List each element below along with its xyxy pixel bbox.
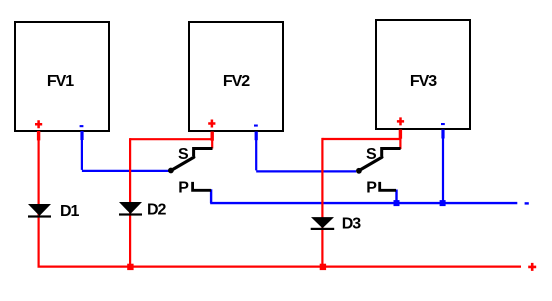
svg-text:D2: D2 (147, 201, 167, 218)
wire diode D2 branch down to bottom bus (129, 138, 131, 267)
switch SW2 arm (359, 157, 382, 170)
junction node SW2 P on negative bus (394, 200, 400, 206)
wire branch FV3 positive to diode D3 (322, 138, 400, 140)
wire bottom positive bus (38, 266, 522, 268)
wire FV3 negative down to negative bus (442, 130, 444, 204)
junction node diode D3 on positive bus (320, 264, 326, 270)
switch SW1 common node dot (168, 168, 174, 174)
solar panel FV1 (15, 22, 109, 131)
svg-text:S: S (178, 146, 189, 163)
wire FV1 negative to switch SW1 common (82, 132, 170, 171)
svg-text:P: P (366, 180, 377, 197)
switch SW2 common node dot (356, 168, 362, 174)
wire switch SW1 P contact down and negative bus to the right (210, 189, 517, 203)
junction node FV3 negative on negative bus (440, 200, 446, 206)
switch SW1 arm (171, 157, 194, 170)
FV1 minus sign (80, 125, 84, 127)
diode D2 (119, 202, 142, 216)
diode D1 (28, 204, 51, 218)
switch SW1 S contact hook (194, 149, 213, 157)
FV2 minus sign (254, 125, 258, 127)
FV3 plus sign (397, 117, 404, 125)
svg-text:FV1: FV1 (47, 73, 74, 90)
solar panel FV2 (189, 22, 283, 131)
wire switch SW2 P contact down to negative bus (395, 190, 397, 204)
switch SW1 P contact hook (193, 182, 211, 190)
output minus sign on negative bus (525, 202, 529, 204)
FV1 positive terminal stub (37, 131, 40, 140)
wire FV2 positive drop to switch S contact (211, 132, 213, 149)
FV2 plus sign (208, 120, 215, 128)
wire FV1 positive down to bottom positive bus (37, 131, 39, 267)
svg-text:S: S (366, 146, 377, 163)
FV2 negative terminal stub (255, 132, 258, 141)
svg-text:P: P (178, 180, 189, 197)
FV1 negative terminal stub (80, 131, 83, 140)
svg-text:FV2: FV2 (223, 73, 250, 90)
junction node diode D2 on positive bus (127, 264, 133, 270)
FV3 positive terminal stub (399, 130, 402, 139)
wire branch FV2 positive to diode D2 (130, 138, 212, 140)
svg-text:FV3: FV3 (410, 73, 437, 90)
FV2 positive terminal stub (211, 132, 214, 141)
FV3 minus sign (441, 123, 445, 125)
wire diode D3 branch down to bottom bus (321, 138, 323, 267)
solar panel FV3 (376, 20, 470, 129)
wire FV2 negative to switch SW2 common (256, 132, 356, 172)
switch SW2 P contact hook (380, 182, 396, 190)
svg-text:D3: D3 (342, 215, 362, 232)
svg-text:D1: D1 (60, 203, 80, 220)
FV1 plus sign (35, 120, 42, 128)
output plus sign on positive bus (528, 263, 536, 271)
wire FV3 positive drop to switch S contact (399, 130, 401, 150)
FV3 negative terminal stub (441, 130, 444, 139)
diode D3 (311, 217, 335, 230)
switch SW2 S contact hook (382, 149, 401, 157)
